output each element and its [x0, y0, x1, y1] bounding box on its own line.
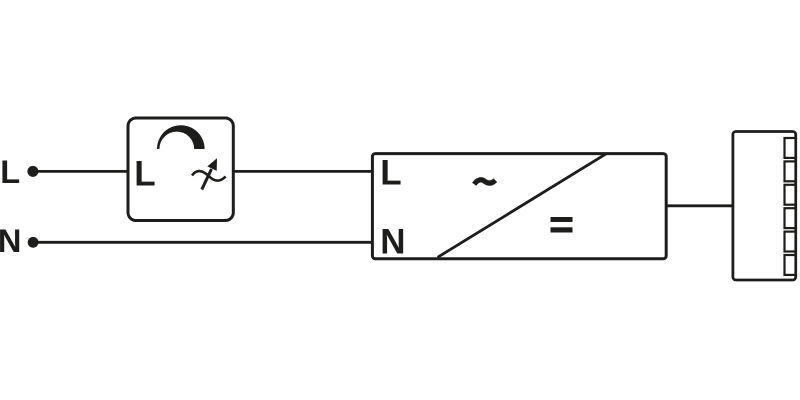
LED strip module box [733, 132, 796, 281]
dimmer adjustment arrow head [207, 158, 217, 171]
LED segment 2 [785, 161, 796, 181]
terminal dot L [27, 166, 38, 177]
terminal dot N [28, 237, 39, 248]
wire driver to LED strip [666, 204, 733, 207]
DC equals symbol [551, 217, 573, 222]
LED segment 1 [785, 138, 796, 158]
LED segment 4 [785, 208, 796, 228]
LED segment 5 [785, 232, 796, 252]
LED driver U1 box [372, 154, 666, 259]
wire N terminal to driver [33, 241, 373, 244]
AC tilde symbol [474, 180, 495, 184]
svg-text:L: L [380, 154, 401, 193]
AC/DC divider diagonal [438, 154, 607, 258]
svg-text:L: L [134, 154, 155, 193]
svg-text:N: N [0, 222, 21, 259]
LED segment 6 [785, 255, 796, 275]
dimmer rotary-knob arc [157, 125, 205, 149]
wire L terminal to dimmer [33, 170, 129, 173]
LED segment 3 [785, 185, 796, 205]
svg-text:N: N [380, 223, 405, 262]
dimmer adjustment arrow shaft [202, 169, 212, 190]
wire dimmer to driver [233, 170, 373, 173]
svg-text:L: L [0, 153, 20, 190]
dimmer S1 box [128, 118, 233, 221]
dimmer sine wave [192, 171, 226, 181]
